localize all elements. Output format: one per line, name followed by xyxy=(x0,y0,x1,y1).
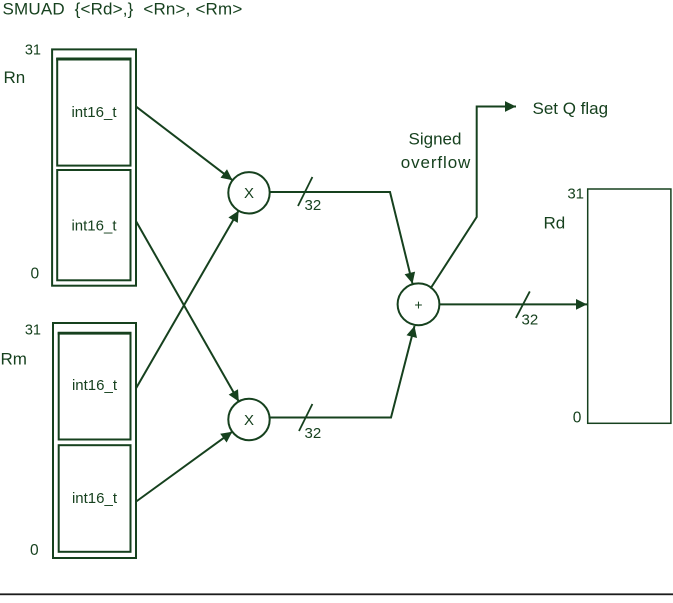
wire M1 output to adder xyxy=(270,192,415,284)
svg-text:overflow: overflow xyxy=(401,153,472,172)
register Rm outer box xyxy=(53,323,136,558)
wire Rn[15:0] to multiplier M2 xyxy=(136,222,239,402)
register Rm low halfword box xyxy=(59,445,131,552)
wire signed overflow to Set Q flag xyxy=(431,101,517,288)
svg-text:0: 0 xyxy=(573,409,582,426)
svg-text:int16_t: int16_t xyxy=(71,104,117,121)
bus width slash (M2 output, 32) xyxy=(299,404,312,431)
svg-text:Set Q flag: Set Q flag xyxy=(533,99,609,118)
wire M2 output to adder xyxy=(270,326,417,418)
svg-text:+: + xyxy=(414,296,422,312)
wire Rn[31:16] to multiplier M1 xyxy=(136,107,232,181)
wire adder output to Rd xyxy=(439,299,587,310)
svg-text:32: 32 xyxy=(305,425,322,442)
register Rn low halfword box xyxy=(57,170,130,280)
svg-text:Rn: Rn xyxy=(4,68,26,87)
svg-text:X: X xyxy=(244,412,254,429)
svg-text:int16_t: int16_t xyxy=(72,377,118,394)
svg-text:32: 32 xyxy=(305,197,322,214)
svg-text:0: 0 xyxy=(31,266,40,283)
svg-text:31: 31 xyxy=(567,186,584,203)
adder circle xyxy=(398,283,440,325)
register Rn high halfword box xyxy=(56,59,131,166)
bus width slash (adder output, 32) xyxy=(516,291,530,318)
svg-text:Rd: Rd xyxy=(544,214,566,233)
svg-text:31: 31 xyxy=(25,323,41,339)
wire Rm[15:0] to multiplier M2 xyxy=(136,432,232,502)
multiplier M2 circle xyxy=(228,399,269,440)
svg-text:Rm: Rm xyxy=(1,350,27,369)
svg-text:0: 0 xyxy=(30,542,39,559)
svg-text:32: 32 xyxy=(522,312,539,329)
svg-text:SMUAD {<Rd>,} <Rn>, <Rm>: SMUAD {<Rd>,} <Rn>, <Rm> xyxy=(3,0,243,19)
register Rd box xyxy=(588,189,671,423)
register Rn outer box xyxy=(52,49,136,285)
svg-text:31: 31 xyxy=(25,43,41,59)
bus width slash (M1 output, 32) xyxy=(298,177,312,206)
wire Rm[31:16] to multiplier M1 xyxy=(136,211,238,388)
svg-text:Signed: Signed xyxy=(409,129,462,148)
multiplier M1 circle xyxy=(228,172,269,213)
svg-text:X: X xyxy=(244,185,254,202)
page divider rule xyxy=(0,593,673,595)
svg-text:int16_t: int16_t xyxy=(71,218,117,235)
svg-text:int16_t: int16_t xyxy=(72,490,118,507)
register Rm high halfword box xyxy=(58,333,132,439)
